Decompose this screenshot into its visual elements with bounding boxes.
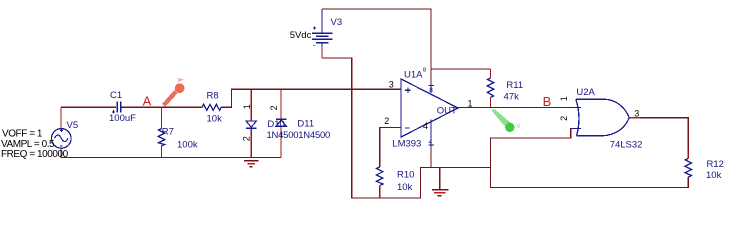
svg-text:100uF: 100uF [109, 113, 136, 124]
svg-text:OUT: OUT [437, 105, 457, 116]
svg-text:3: 3 [389, 79, 394, 89]
battery V3 [312, 9, 333, 47]
svg-text:8: 8 [429, 87, 433, 94]
voltage source V5 [52, 129, 72, 149]
svg-text:V5: V5 [67, 120, 79, 131]
svg-text:FREQ = 100000: FREQ = 100000 [1, 149, 69, 160]
svg-text:2: 2 [384, 116, 389, 126]
wire D11 leads [280, 89, 282, 118]
wire top rail from V3 plus to op-amp V+ column [322, 9, 431, 84]
svg-text:R12: R12 [707, 159, 724, 170]
wire branch to R11 top [431, 68, 491, 70]
svg-text:8: 8 [423, 68, 426, 74]
op-amp V- pin 4 stub [429, 120, 435, 148]
wire op-amp output rail to OR gate input1 (node B) [458, 107, 577, 109]
svg-text:10k: 10k [706, 170, 722, 181]
wire V5 bottom lead and bottom rail to diodes [61, 149, 281, 158]
svg-text:47k: 47k [504, 92, 520, 103]
wire op-amp pin2 to R10 [380, 128, 401, 168]
svg-text:4: 4 [423, 121, 428, 131]
svg-text:10k: 10k [207, 113, 223, 124]
svg-text:4: 4 [429, 139, 433, 146]
ground under diodes [244, 161, 259, 167]
wire R7 branch at node A [161, 107, 163, 128]
svg-text:1: 1 [468, 98, 473, 108]
svg-text:10k: 10k [397, 182, 413, 193]
resistor R12 [685, 158, 691, 177]
svg-text:R11: R11 [506, 80, 523, 91]
red voltage probe at node A [164, 78, 185, 105]
svg-text:U2A: U2A [576, 87, 595, 98]
svg-text:B: B [543, 94, 552, 109]
svg-text:D10: D10 [267, 119, 284, 130]
svg-text:C1: C1 [110, 90, 122, 101]
wire battery minus down and bottom-left ground rail [321, 47, 323, 58]
svg-text:3: 3 [634, 108, 639, 118]
svg-text:5Vdc: 5Vdc [290, 30, 312, 41]
wire ground net to OR gate input2 [491, 129, 577, 168]
wire OR gate output to R12 top [629, 117, 640, 119]
svg-text:U1A: U1A [404, 70, 423, 81]
wire R11 leads [490, 69, 492, 78]
svg-text:100k: 100k [177, 139, 198, 150]
svg-text:v: v [517, 121, 521, 130]
svg-text:V3: V3 [331, 17, 343, 28]
OR gate U2A 74LS32 [571, 99, 629, 136]
op-amp U1A LM393 [401, 79, 458, 137]
green voltage probe at node B [492, 109, 521, 132]
wire ground net bottom rail to R12 [491, 138, 689, 188]
svg-text:LM393: LM393 [392, 138, 421, 149]
svg-text:2: 2 [242, 136, 252, 141]
ground under op-amp [432, 168, 449, 196]
wire main signal rail V5 to C1 to A to R8 [61, 106, 116, 108]
wire op-amp pin4 lead to ground rail [430, 147, 432, 168]
op-amp V+ pin 8 stub [429, 84, 435, 94]
resistor R10 [377, 167, 383, 186]
svg-text:1: 1 [559, 96, 569, 101]
wire V5 top lead [60, 107, 62, 128]
svg-text:74LS32: 74LS32 [610, 139, 643, 150]
capacitor C1 [112, 102, 121, 114]
svg-text:R7: R7 [162, 127, 174, 138]
resistor R11 [487, 78, 493, 98]
diode D11 [276, 119, 287, 126]
svg-text:A: A [143, 93, 152, 108]
svg-text:1: 1 [242, 104, 252, 109]
svg-text:2: 2 [269, 105, 279, 110]
svg-text:2: 2 [559, 116, 569, 121]
diode D10 [246, 121, 256, 128]
svg-text:1N45001N4500: 1N45001N4500 [267, 130, 331, 141]
wire D10 leads [250, 89, 252, 121]
resistor R8 [202, 104, 221, 110]
resistor R7 [158, 129, 164, 147]
svg-text:D11: D11 [297, 119, 314, 130]
svg-text:R10: R10 [397, 169, 414, 180]
wire R8 right jog up to comparator pin3 rail [221, 89, 401, 107]
svg-text:R8: R8 [207, 91, 219, 102]
